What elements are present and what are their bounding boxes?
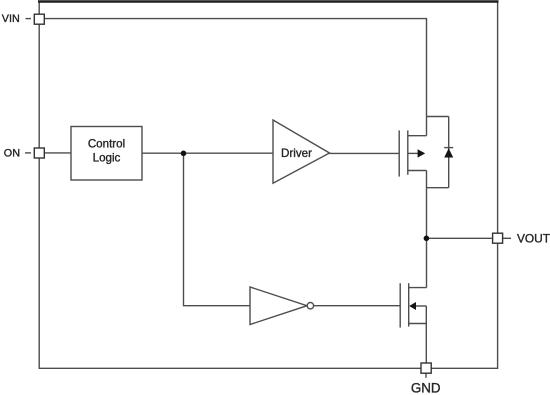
- svg-text:Driver: Driver: [281, 147, 312, 160]
- pin square VOUT: [493, 233, 503, 243]
- svg-text:VOUT: VOUT: [517, 231, 550, 245]
- wire diode branch vertical: [448, 117, 450, 188]
- inverter bubble: [307, 303, 313, 309]
- driver buffer triangle: [273, 120, 330, 183]
- transistor Q1 drain stub: [408, 135, 427, 137]
- svg-text:ON: ON: [4, 147, 20, 159]
- pin square ON: [34, 148, 44, 158]
- transistor Q1 body stub: [408, 152, 419, 154]
- transistor Q1 channel bar: [407, 130, 409, 174]
- wire VIN lead dash: [26, 18, 32, 20]
- transistor Q2 channel bar: [408, 283, 410, 326]
- wire Q1 source to Q2 drain: [426, 171, 428, 288]
- pin square GND: [421, 363, 431, 373]
- inverter triangle: [250, 287, 307, 325]
- diode D1 triangle: [444, 148, 453, 157]
- transistor Q1 body arrow: [418, 149, 426, 157]
- transistor Q1 source stub: [408, 170, 427, 172]
- svg-text:Logic: Logic: [93, 152, 121, 165]
- transistor Q2 source stub: [409, 323, 427, 325]
- wire VOUT lead dash: [503, 237, 511, 239]
- wire GND stub below pin: [425, 373, 427, 378]
- node A junction dot: [181, 151, 187, 157]
- node VOUT junction dot: [424, 236, 430, 242]
- transistor Q1 gate bar: [398, 130, 400, 176]
- svg-text:Control: Control: [88, 138, 125, 151]
- wire diode top tap: [427, 116, 449, 118]
- transistor Q2 body stub: [415, 305, 426, 307]
- wire driver output to Q1 gate: [330, 152, 400, 154]
- diode D1 cathode bar: [444, 147, 453, 149]
- wire VOUT node to pin: [427, 237, 493, 239]
- wire VIN to Q1 drain: [44, 19, 426, 136]
- pin square VIN: [34, 14, 44, 24]
- transistor Q2 drain stub: [409, 287, 427, 289]
- wire ON lead dash: [25, 152, 31, 154]
- IC boundary box: [39, 2, 497, 368]
- wire ON pin to control logic: [44, 152, 71, 154]
- transistor Q2 gate bar: [399, 283, 401, 327]
- wire inverter output to Q2 gate: [314, 305, 400, 307]
- wire control logic to driver input: [142, 152, 273, 154]
- wire Q2 body-source to GND pin: [425, 306, 427, 363]
- transistor Q2 body arrow: [409, 302, 416, 310]
- control logic block: [71, 127, 142, 181]
- wire diode bottom tap: [427, 187, 449, 189]
- svg-text:GND: GND: [411, 381, 441, 395]
- wire node A down to inverter input: [184, 153, 251, 306]
- IC boundary top edge (thicker): [38, 0, 499, 2]
- svg-text:VIN: VIN: [2, 13, 20, 25]
